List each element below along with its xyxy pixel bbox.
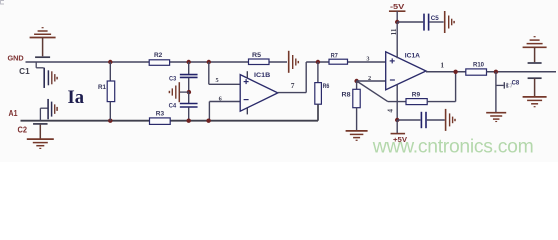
svg-text:6: 6 (219, 95, 222, 102)
svg-text:-5V: -5V (390, 4, 405, 11)
svg-text:Ia: Ia (68, 87, 85, 108)
svg-text:4: 4 (385, 109, 394, 113)
svg-text:A1: A1 (9, 109, 19, 118)
svg-text:R7: R7 (331, 52, 338, 59)
svg-text:7: 7 (291, 81, 295, 90)
svg-text:IC1B: IC1B (254, 73, 271, 79)
svg-text:R9: R9 (412, 91, 421, 98)
svg-text:C2: C2 (18, 125, 28, 134)
svg-text:R2: R2 (154, 52, 163, 59)
svg-text:R3: R3 (156, 111, 165, 118)
svg-text:C4: C4 (169, 103, 177, 110)
svg-text:R6: R6 (323, 83, 330, 90)
svg-text:R8: R8 (342, 91, 352, 98)
svg-text:R5: R5 (252, 52, 261, 59)
svg-text:R1: R1 (98, 84, 107, 91)
svg-text:C8: C8 (512, 80, 520, 87)
svg-text:GND: GND (8, 56, 24, 63)
svg-text:IC1A: IC1A (405, 54, 421, 60)
svg-text:2: 2 (368, 75, 371, 82)
svg-text:R10: R10 (473, 62, 484, 69)
svg-text:1: 1 (440, 60, 444, 69)
svg-text:+5V: +5V (393, 137, 407, 144)
svg-text:11: 11 (389, 28, 398, 35)
svg-text:5: 5 (216, 77, 219, 84)
svg-text:C1: C1 (19, 67, 30, 76)
svg-text:C3: C3 (169, 75, 177, 82)
svg-text:C5: C5 (431, 15, 440, 22)
svg-text:3: 3 (366, 55, 369, 62)
